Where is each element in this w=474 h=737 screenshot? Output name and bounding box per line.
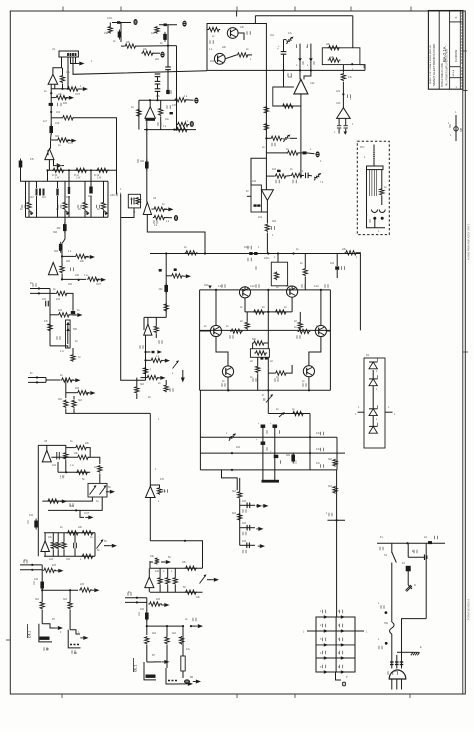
wire [185,99,193,101]
wire [65,380,67,398]
relay contact block [144,662,156,680]
svg-text:100: 100 [68,283,73,286]
resistor R7 (dark body) [118,30,122,40]
node [144,359,146,361]
trimmer RV6 [90,485,97,494]
resistor R36 [61,378,74,382]
wire [57,196,59,217]
node [182,625,184,627]
svg-text:0.22: 0.22 [286,285,291,288]
resistor R33 [58,313,71,317]
resistor R72 [328,46,341,50]
wire [61,251,63,264]
wire [285,175,290,178]
wire bus [139,99,177,101]
svg-text:IN: IN [24,559,27,562]
wire [336,270,338,278]
svg-text:IN: IN [30,282,33,285]
fuse hatch [395,662,399,665]
wire [265,158,267,190]
resistor R30 [57,138,70,142]
off-page arrow [162,359,170,363]
arrow mark (down) [181,378,185,383]
wire [62,68,64,75]
svg-text:223: 223 [75,387,80,390]
svg-text:0.22: 0.22 [250,285,255,288]
resistor R31 [87,277,100,281]
svg-text:8R: 8R [74,652,77,655]
wire [166,275,170,277]
wire [299,330,301,332]
title block text [456,86,458,89]
svg-text:1 W: 1 W [60,475,65,478]
margin text [467,599,471,620]
node [308,389,310,391]
capacitor C2b (dark) [166,90,170,94]
wire [50,346,68,348]
fuse hatch [400,662,404,665]
diode D9 [369,379,377,386]
trimmer RV11 [173,360,180,368]
wire [46,445,48,450]
svg-text:8R: 8R [46,648,49,651]
wire [148,588,150,593]
resistor R106 [171,274,184,278]
wire [47,170,49,181]
frame tick [294,694,296,698]
wire [262,426,264,480]
wire [152,208,153,210]
resistor R38 [64,400,68,409]
wire [144,316,166,318]
node [156,99,158,101]
capacitor (ladder) [36,189,38,196]
wire [373,170,375,196]
wire [141,377,147,379]
wire [41,565,43,580]
node [165,252,167,254]
svg-text:47u: 47u [316,448,321,451]
margin text [467,223,471,260]
resistor R14 [159,108,163,117]
wire [63,533,65,542]
node [166,625,168,627]
wire [297,152,302,154]
resistor R6 [108,26,112,34]
resistor R105 [282,104,295,108]
svg-text:0.22: 0.22 [218,285,223,288]
wire [299,312,301,322]
wire [38,444,66,446]
node [65,471,67,473]
wire [182,370,184,378]
wire [146,190,148,202]
capacitor (ladder) [56,189,58,196]
off-page arrow [64,96,74,100]
wire [310,44,312,71]
node [136,601,138,603]
frame corner tick [463,90,468,92]
resistor R46 [47,499,60,503]
svg-text:BONAR 5061XX 2706: BONAR 5061XX 2706 [441,63,444,87]
diode D4 [309,58,313,61]
wire [148,568,150,577]
off-page arrow [258,544,265,548]
resistor R35 [71,354,75,362]
node [50,92,52,94]
op-amp U8 [146,486,156,497]
underline [27,624,29,638]
node [231,452,233,454]
wire [397,651,413,653]
title block divider [449,11,451,90]
dashed enclosure [357,141,389,234]
svg-text:104: 104 [55,121,60,125]
wire [291,286,293,290]
op-amp U5 [143,202,151,214]
terminal contact [341,615,345,618]
svg-text:R: R [414,584,416,587]
wire center [267,312,269,343]
svg-text:IN: IN [30,372,33,375]
resistor R93 [292,411,305,415]
wire jack input [112,22,131,24]
contact mark [260,357,263,359]
fuse F1 [249,252,252,255]
frame tick [236,7,238,12]
off-page arrow [161,660,169,664]
svg-text:R: R [262,394,264,397]
wire [72,348,74,354]
wire [52,533,54,542]
diode D5 [303,151,307,154]
resistor R60 [155,558,159,565]
wire [63,550,65,557]
wire [64,211,66,218]
wire [109,23,111,26]
wire [165,254,167,318]
svg-text:RY: RY [152,654,156,657]
resistor R113 [135,386,139,394]
off-page arrow [109,544,117,548]
resistor R111 [143,367,147,375]
svg-text:3k3: 3k3 [232,512,237,515]
svg-text:OUT: OUT [84,512,90,515]
wire [391,543,393,553]
off-page arrow [106,490,115,494]
arrow mark [344,132,348,135]
resistor R67 [145,636,149,645]
title block text [432,43,436,86]
node [227,389,229,391]
wire [84,181,86,202]
title block text [446,49,449,86]
wire [381,196,383,205]
title block sub-divider [450,66,461,68]
wire [41,589,43,602]
wire [345,118,347,125]
resistor R53 [81,554,94,558]
wire [146,645,148,662]
wire ladder bottom bus [26,216,109,218]
node [292,252,294,254]
wire [94,533,96,557]
node [38,292,40,294]
wire [244,298,246,312]
frame tick [120,7,122,12]
wire [308,377,310,391]
wire [54,160,57,166]
wire rail to input stage box [73,57,207,74]
resistor R23 [153,207,166,211]
resistor R102 [264,106,268,114]
wire [374,218,376,228]
svg-text:302: 302 [140,160,145,163]
terminal block T1 [316,617,355,672]
feedback loop U12 [273,87,301,106]
node [381,217,384,220]
wire [267,343,269,349]
svg-text:1N4: 1N4 [204,284,209,287]
wire [73,396,75,399]
transistor Q3 [239,287,250,298]
trimmer arrow [279,412,285,417]
fuse F2 [254,252,257,255]
wire main rail [266,69,365,71]
chassis ground [411,652,420,655]
wire [121,208,134,218]
op-amp U7 [45,149,54,160]
svg-text:104: 104 [49,558,54,561]
wire [309,414,311,470]
connector jack CN6 [174,215,178,221]
wire [345,129,347,134]
wire [167,46,169,67]
capacitor C7 [132,198,135,205]
wire [174,585,176,592]
wire [69,590,71,601]
wire [401,652,403,668]
node [184,540,186,542]
wire [66,293,73,310]
wire [182,626,184,656]
svg-text:SHEET 1 OF 1 SCALE NONE DWG: SHEET 1 OF 1 SCALE NONE DWG NO [429,45,432,84]
wire [167,70,169,74]
node [31,569,33,571]
wire rail mid [200,329,331,331]
wire [90,457,100,464]
wire [266,152,288,154]
resistor R114 [164,384,168,392]
wire bus [51,88,66,90]
svg-text:147: 147 [172,104,177,107]
wire [66,392,77,394]
resistor R98 [333,486,337,494]
capacitor C10 [57,452,60,460]
title block revision strip [461,13,462,86]
node [149,99,151,101]
wire [166,645,168,668]
svg-text:104: 104 [56,111,61,114]
svg-text:223: 223 [156,598,161,601]
connector J1 pin [67,53,69,56]
wire input [125,601,147,603]
wire through terminal block [335,617,337,672]
wire long vertical [176,46,178,130]
node [38,287,40,289]
svg-text:104: 104 [56,298,61,301]
resistor R90 [254,351,267,355]
svg-text:223: 223 [80,583,85,586]
wire [54,569,56,571]
wire [247,54,252,56]
svg-text:47u: 47u [316,432,321,435]
op-amp U14 (down) [261,190,273,201]
wire [61,274,63,279]
wire [147,661,161,663]
wire [251,153,266,185]
svg-text:226: 226 [63,102,68,105]
resistor R54 [43,568,56,572]
wire [28,211,30,218]
wire supply bus 3 [200,469,337,471]
wire bus [44,555,95,557]
wire [372,370,374,379]
terminal row line [316,657,355,659]
trimmer arrow [85,211,90,216]
svg-text:C4.1: C4.1 [28,631,32,638]
svg-text:180: 180 [66,196,71,199]
wire [68,139,71,141]
wire [187,124,189,126]
op-amp U3 [145,107,156,118]
wire left rail [37,445,39,556]
svg-text:J1: J1 [52,47,55,51]
resistor R112 [146,375,159,379]
resistor R56 [79,588,92,592]
wire [57,533,59,542]
wire [268,413,310,415]
off-page arrow [74,62,84,66]
node [373,217,376,220]
wire [159,568,161,577]
relay contact marks [70,644,79,646]
wire center tail [267,390,269,413]
resistor R61 [158,577,162,585]
wire [150,485,159,487]
wire input [30,288,50,290]
node [336,519,338,521]
svg-text:4u7: 4u7 [43,120,48,123]
svg-text:104: 104 [42,298,47,301]
svg-text:1 w: 1 w [84,274,88,277]
terminal contact [324,629,328,632]
node [78,279,80,281]
wire [74,533,76,543]
wire [68,170,70,181]
resistor R22 (dark body) [145,160,149,171]
wire [342,82,344,108]
wire [90,181,92,188]
wire [62,255,75,257]
wire [286,365,293,373]
resistor R10 [124,44,137,48]
off-page arrow [91,588,99,592]
wire [239,499,241,545]
relay coil box [367,166,384,170]
wire input [28,377,46,379]
svg-text:3k3: 3k3 [328,458,333,461]
wire [68,181,70,188]
node [67,88,69,90]
capacitor C22 (polarized) [273,425,278,428]
resistor R78 [265,223,269,232]
wire [65,460,67,472]
wire top link [255,15,352,17]
connector J1 [59,51,78,57]
connector J1 pin [70,53,72,56]
node [282,69,284,71]
wire [160,100,162,107]
svg-text:302: 302 [54,250,59,253]
wire [155,317,157,325]
value marks [58,103,62,107]
relay contact marks [168,680,177,682]
resistor R91 [256,366,260,374]
wire [146,620,148,636]
wire [73,409,75,414]
resistor R11 [141,51,154,55]
wire [391,660,393,669]
wire [143,317,145,330]
wire input [20,564,42,566]
wire bus [150,591,203,593]
wire [182,671,184,678]
wire [64,181,66,202]
wire [28,181,30,202]
wire [49,289,51,346]
wire feedback right [356,253,361,331]
frame tick [62,7,64,12]
wire [104,545,109,547]
resistor R79 [185,251,198,255]
op-amp U12 [294,79,308,94]
resistor R19 [96,168,109,172]
diode D2 (zener) [286,37,293,44]
switch S1 [392,552,397,563]
capacitor C29 [174,268,177,271]
wire center [267,357,269,390]
wire [103,211,105,218]
capacitor C18 [254,204,257,206]
wire right link [336,437,338,470]
node [231,469,233,471]
terminal contact [324,615,328,618]
wire [283,40,285,52]
frame tick [409,694,411,698]
wire [146,359,151,361]
wire [284,86,294,88]
wire [309,337,321,366]
wire U3 output [146,121,148,161]
wire [48,160,50,171]
wire [283,55,285,87]
terminal mark [425,555,428,561]
op-amp U13 [337,108,351,119]
svg-text:AC: AC [394,670,398,673]
connector mark [454,127,458,131]
wire [36,181,38,188]
